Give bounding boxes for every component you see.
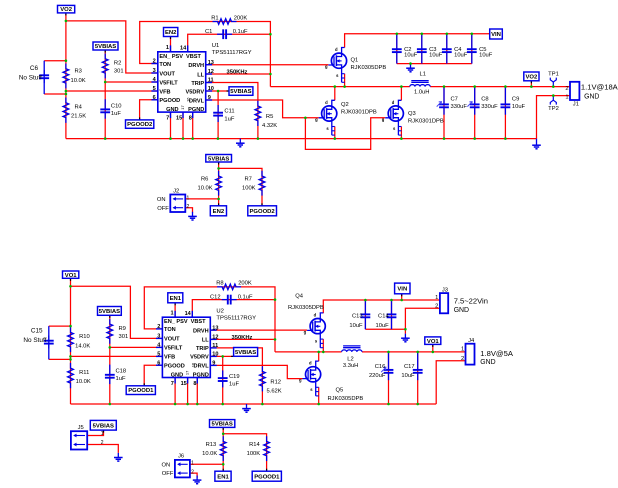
svg-text:C6: C6 [30, 65, 39, 72]
svg-text:TON: TON [164, 327, 176, 333]
svg-text:8: 8 [193, 381, 196, 387]
svg-text:R14: R14 [249, 442, 260, 448]
svg-text:VBST: VBST [186, 54, 202, 60]
svg-text:15: 15 [181, 381, 187, 387]
svg-text:R11: R11 [79, 370, 89, 376]
svg-text:PGND: PGND [193, 372, 209, 378]
svg-text:10.0K: 10.0K [71, 78, 86, 84]
svg-text:13: 13 [212, 325, 218, 331]
svg-text:J1: J1 [573, 102, 579, 108]
svg-text:ON: ON [162, 463, 171, 469]
svg-text:PGOOD1: PGOOD1 [254, 474, 280, 480]
svg-text:10uF: 10uF [479, 53, 493, 59]
svg-text:DRVL: DRVL [189, 98, 205, 104]
svg-text:No Stuff: No Stuff [23, 337, 46, 344]
svg-text:RJK0305DPB: RJK0305DPB [288, 305, 324, 311]
svg-text:C17: C17 [404, 364, 415, 370]
svg-text:V5DRV: V5DRV [186, 89, 205, 95]
svg-text:0.1uF: 0.1uF [233, 29, 248, 35]
svg-text:5VBIAS: 5VBIAS [99, 309, 120, 315]
svg-text:1.8V@5A: 1.8V@5A [480, 349, 514, 358]
svg-text:EN1: EN1 [217, 474, 229, 480]
svg-text:VFB: VFB [164, 355, 175, 361]
svg-text:V5FILT: V5FILT [159, 80, 178, 86]
svg-text:9: 9 [212, 361, 215, 367]
svg-text:1: 1 [461, 346, 464, 352]
svg-text:1: 1 [187, 195, 190, 201]
svg-text:GND: GND [480, 359, 495, 366]
svg-text:R8: R8 [216, 281, 223, 287]
svg-text:4.32K: 4.32K [262, 123, 277, 129]
svg-text:d: d [314, 312, 317, 317]
svg-text:g: g [299, 378, 302, 383]
svg-text:14: 14 [185, 311, 192, 317]
svg-text:2: 2 [565, 86, 568, 92]
svg-text:R5: R5 [266, 114, 273, 120]
svg-text:VBST: VBST [191, 319, 207, 325]
svg-text:d: d [309, 361, 312, 366]
svg-text:301: 301 [119, 334, 129, 340]
svg-text:3: 3 [157, 334, 160, 340]
svg-text:PGOOD2: PGOOD2 [127, 122, 153, 128]
svg-text:TRIP: TRIP [196, 346, 209, 352]
svg-text:2: 2 [435, 303, 438, 309]
svg-text:3.3uH: 3.3uH [343, 363, 358, 369]
svg-text:100K: 100K [242, 186, 256, 192]
svg-text:7: 7 [166, 116, 169, 122]
svg-text:R12: R12 [270, 379, 281, 385]
svg-text:C18: C18 [116, 369, 127, 375]
svg-text:15: 15 [176, 116, 182, 122]
svg-text:C10: C10 [111, 103, 122, 109]
svg-text:VIN: VIN [397, 287, 407, 293]
svg-text:330uF: 330uF [451, 104, 468, 110]
svg-text:2: 2 [153, 59, 156, 65]
svg-text:10.0K: 10.0K [198, 186, 213, 192]
svg-text:VO1: VO1 [65, 273, 78, 279]
svg-text:J4: J4 [468, 338, 475, 344]
svg-text:10uF: 10uF [454, 53, 468, 59]
svg-text:LL: LL [202, 338, 209, 344]
svg-text:R2: R2 [114, 61, 121, 67]
svg-text:11: 11 [212, 343, 218, 349]
svg-text:DRVH: DRVH [188, 63, 204, 69]
svg-text:Q1: Q1 [351, 58, 359, 64]
svg-text:1: 1 [191, 461, 194, 467]
svg-text:10uF: 10uF [512, 104, 526, 110]
svg-text:OFF: OFF [157, 206, 169, 212]
svg-text:5VBIAS: 5VBIAS [235, 350, 256, 356]
svg-text:5: 5 [153, 86, 156, 92]
svg-text:14: 14 [180, 46, 187, 52]
svg-text:301: 301 [114, 69, 124, 75]
svg-text:5VBIAS: 5VBIAS [230, 89, 251, 95]
svg-text:RJK0301DPB: RJK0301DPB [341, 110, 377, 116]
svg-text:EN1: EN1 [170, 296, 182, 302]
svg-text:TPS51117RGY: TPS51117RGY [212, 50, 252, 56]
svg-text:1uF: 1uF [224, 116, 234, 122]
svg-text:C12: C12 [210, 294, 221, 300]
svg-text:11: 11 [208, 78, 214, 84]
svg-text:200K: 200K [234, 15, 248, 21]
svg-text:No Stuff: No Stuff [19, 75, 42, 82]
svg-text:Q3: Q3 [408, 111, 416, 117]
svg-text:10: 10 [208, 86, 214, 92]
svg-text:5VBIAS: 5VBIAS [93, 423, 114, 429]
svg-text:220uF: 220uF [369, 373, 386, 379]
svg-text:2: 2 [157, 324, 160, 330]
svg-text:J3: J3 [442, 288, 448, 294]
svg-text:PGOOD1: PGOOD1 [128, 388, 154, 394]
svg-text:10.0K: 10.0K [202, 451, 217, 457]
svg-text:Q4: Q4 [295, 294, 304, 300]
svg-text:d: d [335, 47, 338, 52]
svg-text:R13: R13 [206, 442, 217, 448]
svg-text:DRVH: DRVH [193, 328, 209, 334]
svg-text:TP1: TP1 [548, 72, 559, 78]
svg-text:21.5K: 21.5K [71, 114, 86, 120]
svg-text:1: 1 [435, 295, 438, 301]
svg-text:1.0uH: 1.0uH [414, 89, 429, 95]
svg-text:1: 1 [170, 311, 173, 317]
svg-text:s: s [315, 339, 318, 344]
svg-text:16: 16 [186, 97, 191, 102]
svg-text:0.1uF: 0.1uF [238, 294, 253, 300]
svg-text:2: 2 [187, 204, 190, 210]
svg-text:g: g [315, 117, 318, 122]
svg-text:s: s [326, 126, 329, 131]
svg-text:TON: TON [159, 62, 171, 68]
svg-text:12: 12 [208, 69, 214, 75]
svg-text:R10: R10 [79, 334, 90, 340]
svg-text:1uF: 1uF [229, 382, 239, 388]
svg-text:6: 6 [157, 360, 160, 366]
svg-text:VO1: VO1 [427, 339, 440, 345]
svg-text:VIN: VIN [491, 32, 501, 38]
svg-text:VO2: VO2 [526, 75, 539, 81]
svg-text:16: 16 [190, 362, 195, 367]
svg-text:VOUT: VOUT [159, 71, 175, 77]
svg-text:EN_ PSV: EN_ PSV [159, 54, 183, 60]
svg-text:R1: R1 [211, 15, 218, 21]
svg-text:TP2: TP2 [548, 106, 559, 112]
svg-text:PGOOD: PGOOD [159, 98, 180, 104]
svg-text:10uF: 10uF [349, 323, 363, 329]
svg-text:J6: J6 [178, 454, 184, 460]
svg-text:L2: L2 [347, 356, 353, 362]
svg-text:7.5~22Vin: 7.5~22Vin [454, 297, 488, 306]
svg-text:2: 2 [191, 470, 194, 476]
svg-text:RJK0301DPB: RJK0301DPB [408, 119, 444, 125]
svg-text:EN2: EN2 [213, 209, 225, 215]
svg-text:R9: R9 [119, 326, 126, 332]
svg-text:10uF: 10uF [375, 323, 389, 329]
svg-text:V5FILT: V5FILT [164, 346, 183, 352]
svg-text:C13: C13 [352, 313, 363, 319]
svg-text:PGOOD: PGOOD [164, 364, 185, 370]
svg-text:DRVL: DRVL [194, 364, 210, 370]
svg-text:1: 1 [565, 95, 568, 101]
svg-text:R4: R4 [75, 105, 83, 111]
svg-text:5VBIAS: 5VBIAS [95, 44, 116, 50]
svg-text:C16: C16 [375, 364, 386, 370]
svg-text:1: 1 [101, 431, 104, 437]
svg-text:5: 5 [157, 352, 160, 358]
svg-text:Q5: Q5 [336, 388, 344, 394]
svg-text:R6: R6 [201, 177, 208, 183]
svg-text:2: 2 [461, 356, 464, 362]
svg-text:g: g [325, 64, 328, 69]
svg-text:C7: C7 [451, 96, 458, 102]
svg-text:GND: GND [171, 372, 183, 378]
svg-text:200K: 200K [238, 281, 252, 287]
svg-text:10.0K: 10.0K [76, 379, 91, 385]
svg-text:1uF: 1uF [116, 376, 126, 382]
svg-text:s: s [310, 387, 313, 392]
svg-text:10uF: 10uF [401, 373, 415, 379]
svg-text:L1: L1 [420, 71, 426, 77]
svg-text:1: 1 [166, 45, 169, 51]
svg-text:RJK0305DPB: RJK0305DPB [351, 65, 387, 71]
svg-text:12: 12 [212, 335, 218, 341]
svg-text:g: g [304, 329, 307, 334]
svg-text:C11: C11 [224, 109, 234, 115]
svg-text:5VBIAS: 5VBIAS [208, 156, 229, 162]
svg-text:OFF: OFF [162, 471, 174, 477]
svg-text:EN2: EN2 [165, 30, 177, 36]
svg-text:g: g [382, 117, 385, 122]
svg-text:U1: U1 [212, 43, 220, 49]
svg-text:GND: GND [584, 94, 599, 101]
svg-text:C9: C9 [512, 96, 519, 102]
svg-text:330uF: 330uF [481, 104, 498, 110]
svg-text:5.62K: 5.62K [267, 388, 282, 394]
svg-text:TPS51117RGY: TPS51117RGY [216, 315, 256, 321]
svg-text:LL: LL [197, 72, 204, 78]
svg-text:C8: C8 [481, 96, 488, 102]
svg-text:14.0K: 14.0K [75, 343, 90, 349]
svg-text:PGND: PGND [188, 107, 204, 113]
svg-text:RJK0305DPB: RJK0305DPB [328, 396, 364, 402]
svg-text:VFB: VFB [159, 89, 170, 95]
svg-text:5VBIAS: 5VBIAS [212, 422, 233, 428]
svg-text:VOUT: VOUT [164, 337, 180, 343]
svg-text:PGOOD2: PGOOD2 [249, 209, 275, 215]
svg-text:d: d [325, 100, 328, 105]
svg-text:9: 9 [208, 95, 211, 101]
svg-text:1uF: 1uF [111, 111, 121, 117]
svg-text:C15: C15 [31, 328, 43, 335]
svg-text:2: 2 [101, 440, 104, 446]
svg-text:C14: C14 [378, 313, 389, 319]
svg-text:3: 3 [153, 68, 156, 74]
svg-text:TRIP: TRIP [191, 81, 204, 87]
svg-text:R7: R7 [245, 177, 252, 183]
svg-text:VO2: VO2 [60, 7, 73, 13]
svg-text:GND: GND [166, 107, 178, 113]
svg-text:V5DRV: V5DRV [190, 355, 209, 361]
svg-text:U2: U2 [216, 309, 224, 315]
svg-text:C19: C19 [229, 374, 240, 380]
svg-text:13: 13 [208, 60, 214, 66]
svg-text:Q2: Q2 [341, 102, 349, 108]
svg-text:d: d [392, 100, 395, 105]
svg-text:100K: 100K [247, 451, 261, 457]
svg-text:350KHz: 350KHz [232, 335, 253, 341]
svg-text:6: 6 [153, 95, 156, 101]
svg-text:J2: J2 [173, 188, 179, 194]
svg-text:10uF: 10uF [429, 53, 443, 59]
svg-text:1.1V@18A: 1.1V@18A [581, 83, 618, 92]
svg-text:GND: GND [454, 307, 469, 314]
svg-text:R3: R3 [75, 69, 82, 75]
svg-text:8: 8 [189, 116, 192, 122]
svg-text:7: 7 [171, 381, 174, 387]
svg-text:s: s [393, 126, 396, 131]
svg-text:17: 17 [180, 104, 185, 109]
svg-text:17: 17 [185, 370, 190, 375]
svg-text:s: s [336, 73, 339, 78]
svg-text:350KHz: 350KHz [227, 69, 248, 75]
svg-text:10: 10 [212, 352, 218, 358]
svg-text:C1: C1 [205, 29, 212, 35]
svg-text:ON: ON [157, 197, 166, 203]
svg-text:J5: J5 [78, 425, 84, 431]
svg-text:10uF: 10uF [404, 53, 418, 59]
svg-text:EN_ PSV: EN_ PSV [164, 319, 188, 325]
